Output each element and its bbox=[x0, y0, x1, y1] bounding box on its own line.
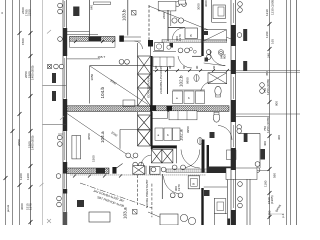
svg-text:1400 (900): 1400 (900) bbox=[31, 135, 35, 150]
shaft X bracing lower bbox=[138, 112, 151, 146]
kitchen wall line top right bbox=[211, 0, 213, 22]
wall x=202 lower mid bbox=[202, 140, 205, 173]
label box E3 dark bbox=[73, 7, 79, 17]
dashed vertical bbox=[137, 175, 139, 205]
svg-text:800: 800 bbox=[223, 54, 227, 59]
hatched wall band upper bbox=[70, 37, 116, 42]
circles pair bbox=[172, 165, 185, 170]
verticals below label box bbox=[246, 179, 248, 225]
svg-text:1200: 1200 bbox=[19, 173, 23, 180]
svg-text:640: 640 bbox=[90, 5, 94, 10]
svg-text:B: B bbox=[189, 34, 193, 36]
window W4 left bbox=[64, 174, 66, 189]
chairs circles bbox=[180, 214, 187, 221]
small dark label top right bbox=[204, 31, 208, 35]
bathroom core wall bbox=[151, 56, 153, 112]
window W2 left bbox=[64, 58, 66, 98]
svg-text:ODVETR.KANAL.: ODVETR.KANAL. bbox=[147, 74, 151, 98]
grey x mark bottom left bbox=[47, 219, 51, 223]
bathroom cabinets bbox=[153, 57, 174, 67]
dimension line L4 bbox=[30, 0, 32, 225]
svg-text:1250 (2065): 1250 (2065) bbox=[266, 79, 270, 95]
svg-text:90: 90 bbox=[168, 65, 172, 69]
door post bbox=[112, 167, 116, 174]
door arc top middle bbox=[172, 28, 183, 40]
wall line x=89.5 bbox=[89, 0, 91, 36]
right rooms horizontal bbox=[239, 132, 260, 134]
drain circle-cross bbox=[194, 75, 199, 82]
inner wall x=167.5 bbox=[167, 67, 169, 94]
box symbol near 103.b bbox=[132, 11, 137, 16]
dim line left extension bbox=[43, 85, 67, 87]
kitchen right bottom bbox=[204, 186, 227, 188]
svg-text:1180: 1180 bbox=[264, 180, 268, 187]
tiny text block upper right bbox=[220, 54, 227, 59]
dim lines right extension bbox=[236, 70, 300, 72]
dashed partition bbox=[148, 5, 150, 40]
axis line A (grey) bbox=[42, 0, 44, 225]
wall lines to shaft bbox=[124, 36, 141, 38]
door leaf line bbox=[204, 63, 226, 66]
circles pair bottom middle bbox=[170, 193, 183, 198]
ticks below band3 bbox=[73, 175, 122, 178]
square table bbox=[160, 214, 178, 225]
circle pair 104.a b bbox=[133, 162, 144, 167]
partition line x=127.8 bbox=[127, 0, 129, 36]
window right W4 bbox=[232, 179, 234, 208]
dark block mid band bbox=[150, 105, 156, 112]
svg-text:103.b: 103.b bbox=[122, 9, 127, 21]
circle right of wall bbox=[207, 50, 211, 54]
svg-text:3000: 3000 bbox=[204, 0, 208, 7]
partition wall horizontal y=27.6 bbox=[168, 27, 185, 29]
svg-text:102.b: 102.b bbox=[179, 75, 184, 87]
svg-text:3050: 3050 bbox=[87, 133, 91, 140]
svg-text:165.T: 165.T bbox=[98, 55, 106, 59]
circles pair upper right room bbox=[206, 50, 211, 60]
svg-text:1370: 1370 bbox=[29, 203, 33, 210]
label box E1 bbox=[52, 73, 56, 83]
double circle kitchen bbox=[218, 50, 224, 56]
dimension text left column bbox=[6, 7, 35, 213]
door arc 2 bbox=[201, 82, 213, 94]
door arcs double bbox=[181, 150, 200, 169]
partition bottom middle bbox=[161, 174, 163, 199]
table rect bottom left bbox=[89, 212, 110, 222]
svg-text:2150: 2150 bbox=[28, 9, 32, 16]
vertical line right of X boxes bbox=[176, 145, 178, 163]
crossed bed rect right bbox=[208, 73, 227, 84]
window right W2 bbox=[232, 77, 234, 99]
dimension line L2 bbox=[12, 0, 14, 225]
washer row 102.a bbox=[155, 128, 163, 140]
dark block bbox=[96, 168, 105, 174]
door arc upper right room bbox=[210, 51, 225, 66]
thick wall x=202 top bbox=[201, 0, 203, 56]
svg-text:1160: 1160 bbox=[265, 31, 269, 38]
dotted sill long bbox=[70, 174, 206, 176]
dim text right column bbox=[263, 0, 285, 218]
furniture rect 104.b bbox=[123, 100, 135, 107]
wall x=202 bottom bbox=[201, 188, 203, 225]
svg-text:NAVRH PRESTAVBY: NAVRH PRESTAVBY bbox=[145, 179, 149, 208]
wardrobe rect 104.a bbox=[72, 136, 81, 159]
box symbol 103.a bbox=[133, 210, 138, 215]
crossed-box symbol bbox=[48, 65, 52, 69]
svg-text:450: 450 bbox=[265, 71, 269, 76]
furniture edge vertical bbox=[170, 11, 172, 26]
svg-text:B: B bbox=[192, 183, 196, 185]
dimension line L1 bbox=[5, 0, 7, 225]
svg-text:1100: 1100 bbox=[268, 210, 272, 217]
window right W1 bbox=[232, 3, 234, 23]
roof diagonal 104.b bbox=[90, 66, 149, 105]
svg-text:60: 60 bbox=[154, 65, 158, 69]
right room door arc bbox=[218, 126, 232, 141]
dark band right bbox=[207, 167, 231, 174]
drain circle-cross 2 bbox=[197, 138, 202, 145]
GSE label box bbox=[204, 190, 210, 196]
svg-text:103.a: 103.a bbox=[123, 207, 128, 219]
white label box on wall bbox=[227, 150, 237, 160]
box with circle bbox=[150, 167, 160, 175]
dark block mid band 2 bbox=[167, 106, 173, 112]
circles on band bbox=[151, 167, 166, 172]
toilet 3 bbox=[213, 113, 219, 122]
dotted sill band right part bbox=[162, 40, 227, 43]
svg-text:1400 (900): 1400 (900) bbox=[31, 65, 35, 80]
beam rect top bbox=[94, 2, 111, 5]
door arc bottom middle bbox=[164, 176, 182, 194]
svg-text:A: A bbox=[0, 12, 4, 14]
thick wall segment y=146 bbox=[151, 145, 177, 148]
svg-text:3000: 3000 bbox=[20, 203, 24, 210]
svg-text:240: 240 bbox=[267, 53, 271, 58]
shaft with X bracing upper bbox=[138, 43, 151, 106]
svg-text:104.a: 104.a bbox=[100, 131, 105, 143]
circles pair right bbox=[255, 162, 260, 173]
furniture rects top middle bbox=[158, 1, 176, 11]
label box E305 right wall bbox=[243, 29, 247, 41]
rotated text bottom middle bbox=[174, 184, 181, 191]
circles right wall bbox=[237, 2, 264, 94]
symbol circles left wall bbox=[54, 3, 64, 207]
svg-text:1250 (2065): 1250 (2065) bbox=[266, 117, 270, 133]
door arc bathroom bbox=[178, 56, 192, 68]
circles pair right mid bbox=[237, 125, 242, 134]
svg-text:900: 900 bbox=[275, 101, 279, 106]
svg-text:60: 60 bbox=[212, 65, 216, 69]
box B bottom bbox=[188, 176, 200, 189]
fixtures row y42-56: corner block bbox=[148, 40, 153, 47]
wall pier dark segments bbox=[63, 28, 67, 56]
partition wall vertical x=168 bbox=[167, 10, 169, 41]
dark pier bottom right corner bbox=[228, 219, 231, 226]
washer row bbox=[173, 91, 183, 104]
hatched mid band bbox=[67, 106, 230, 112]
bathroom core wall lower bbox=[151, 112, 153, 149]
dashed vertical 2 bbox=[151, 184, 153, 218]
extra wall line bottom right bbox=[227, 180, 229, 226]
circled pair fixtures row bbox=[178, 48, 189, 53]
tick row on band bbox=[74, 40, 115, 43]
dim line R with ticks bbox=[269, 0, 271, 225]
X-box in band bbox=[133, 166, 145, 175]
dark block in band bbox=[89, 37, 102, 42]
table diagonal bottom bbox=[148, 212, 178, 225]
svg-text:1230 (1905): 1230 (1905) bbox=[271, 0, 275, 15]
washing machine bbox=[155, 43, 164, 51]
svg-text:janok: janok bbox=[6, 204, 10, 213]
window W1 left bbox=[64, 1, 66, 27]
svg-text:3000: 3000 bbox=[197, 3, 201, 10]
svg-text:3050: 3050 bbox=[90, 73, 94, 80]
svg-text:2600: 2600 bbox=[162, 12, 166, 19]
svg-text:1300: 1300 bbox=[26, 173, 30, 180]
dark appliance block fixtures row bbox=[170, 43, 174, 48]
door arc 104.a bbox=[141, 155, 152, 167]
dimension line L3 bbox=[19, 0, 21, 225]
thin line y=58.9 bbox=[67, 58, 101, 60]
window W3 left bbox=[64, 132, 66, 161]
svg-text:90: 90 bbox=[195, 65, 199, 69]
svg-text:ZARUBNA PUVODNA: ZARUBNA PUVODNA bbox=[159, 64, 163, 94]
small text rotated bbox=[175, 34, 182, 41]
room outline 104.a right bbox=[120, 129, 152, 131]
svg-text:(1905): (1905) bbox=[270, 195, 274, 204]
dashdot annotation diagonal bbox=[80, 183, 152, 208]
circle pair 104.b bbox=[119, 59, 129, 64]
svg-text:590: 590 bbox=[273, 173, 277, 178]
lower wall face band bbox=[70, 41, 116, 47]
window right W3 bbox=[232, 125, 234, 147]
grey slash mark left upper bbox=[47, 30, 64, 120]
door post dark bbox=[119, 36, 124, 42]
partition y=90 bbox=[173, 89, 205, 91]
dim tick row y=70.6 bbox=[153, 69, 232, 72]
svg-text:60: 60 bbox=[182, 65, 186, 69]
svg-text:2050: 2050 bbox=[17, 139, 21, 146]
svg-text:9950: 9950 bbox=[186, 126, 190, 133]
room 104.a diagonal bbox=[67, 114, 134, 160]
sink unit top right bbox=[213, 5, 225, 19]
svg-text:p.4: p.4 bbox=[281, 213, 285, 218]
label box E2 bbox=[52, 91, 56, 101]
roof slope diagonal top bbox=[149, 6, 231, 39]
box B top bbox=[185, 28, 197, 39]
svg-text:165: 165 bbox=[271, 39, 275, 44]
dotted band right bbox=[166, 169, 207, 173]
small circles bbox=[189, 48, 192, 51]
circles pair top edge bbox=[175, 2, 186, 7]
door arc band bbox=[135, 41, 143, 49]
X-duct boxes bbox=[151, 149, 173, 163]
small circle symbol bbox=[167, 45, 171, 49]
bathroom top boundary right bbox=[192, 55, 202, 57]
wall x=207.5 lower mid bbox=[207, 145, 209, 173]
tick row tiny texts bbox=[154, 65, 216, 69]
toilet 2 bbox=[215, 86, 221, 95]
leader line to circles bbox=[58, 133, 63, 135]
dimension ticks left chain bbox=[4, 31, 33, 224]
left exterior wall bbox=[63, 0, 67, 225]
band edge extension right bottom bbox=[257, 170, 270, 172]
label box E305 right bbox=[261, 149, 266, 160]
grey line near dim bbox=[268, 213, 284, 215]
dark label box bottom left bbox=[77, 200, 84, 207]
counter band with diagonal bbox=[204, 30, 227, 41]
right frame lines bbox=[286, 0, 288, 225]
small dark label near wall bbox=[205, 58, 209, 62]
room 104.b outline bbox=[89, 66, 91, 104]
counter edge lines bbox=[212, 21, 227, 23]
svg-text:9950: 9950 bbox=[186, 77, 190, 84]
shelf line bbox=[153, 51, 176, 53]
door leaf diagonal bbox=[117, 164, 123, 169]
circles pair top middle bbox=[172, 18, 184, 23]
svg-text:104.b: 104.b bbox=[100, 87, 105, 99]
circle pair 104.a bbox=[126, 153, 138, 158]
svg-text:1230: 1230 bbox=[265, 9, 269, 16]
label box E right mid bbox=[244, 133, 248, 142]
svg-text:1500: 1500 bbox=[21, 38, 25, 45]
svg-text:1500: 1500 bbox=[92, 155, 96, 162]
label 601 bbox=[210, 132, 215, 138]
inner wall face lines top-left room bbox=[67, 31, 90, 33]
svg-text:400: 400 bbox=[263, 141, 267, 146]
circles right bottom bbox=[238, 182, 243, 208]
svg-text:300: 300 bbox=[277, 135, 281, 140]
left dim extension y=124.3 bbox=[43, 123, 67, 125]
white label box right bbox=[226, 168, 257, 180]
window W5 left bbox=[64, 194, 66, 212]
small verticals bbox=[145, 166, 147, 175]
mid band right extension bbox=[236, 113, 300, 115]
grey diagonal mark left bbox=[40, 183, 44, 187]
svg-text:1970: 1970 bbox=[177, 184, 181, 191]
closet cells row bbox=[152, 111, 168, 119]
label box E305 right wall 2 bbox=[243, 61, 247, 71]
